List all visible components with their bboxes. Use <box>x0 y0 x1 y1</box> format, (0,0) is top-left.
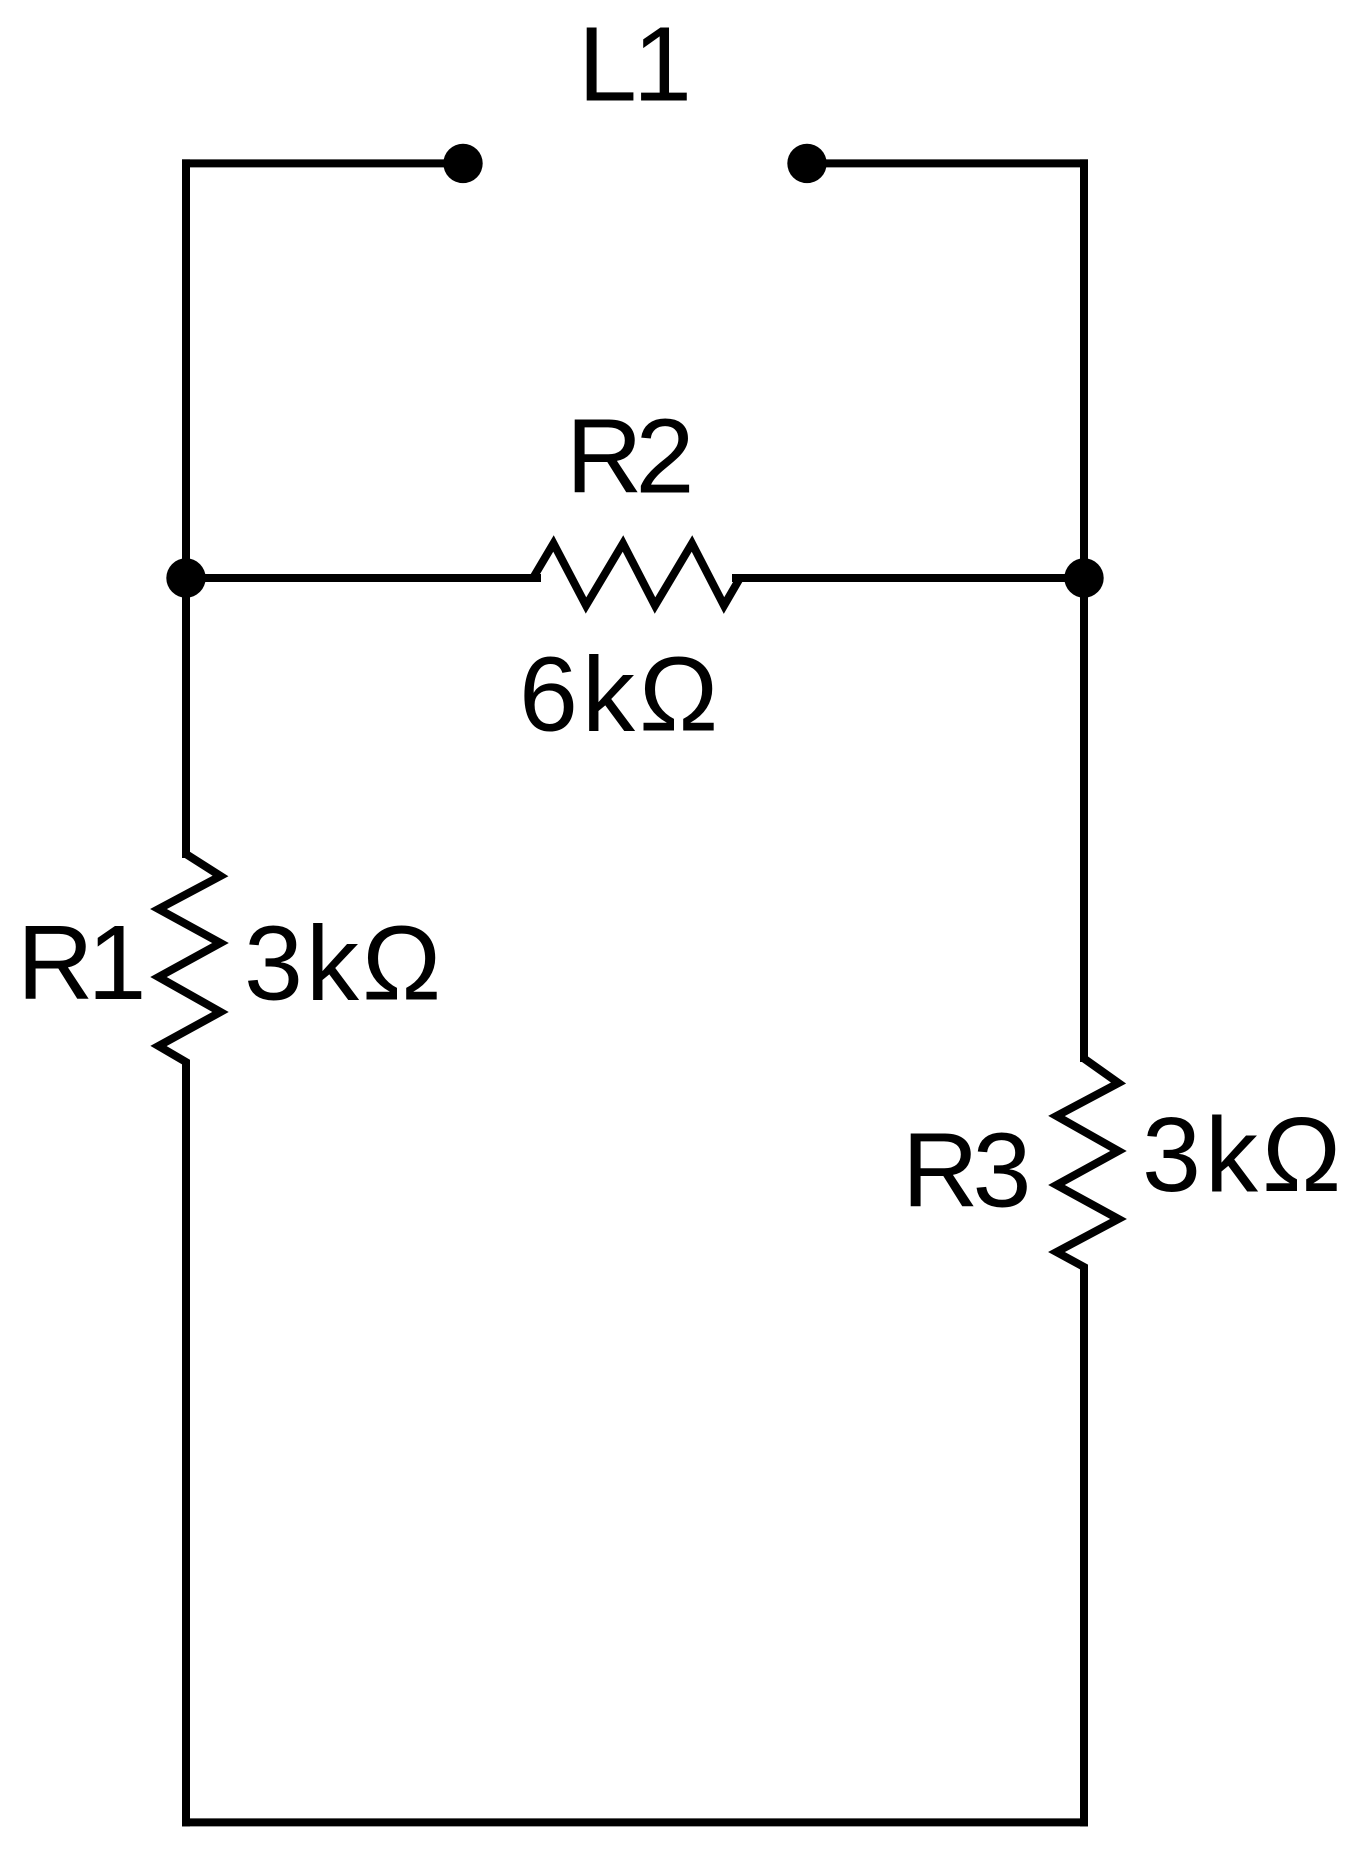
wire middle horizontal left segment (node A to R2) <box>186 574 541 582</box>
resistor R1 zigzag <box>159 846 221 1070</box>
svg-text:6kΩ: 6kΩ <box>519 636 722 754</box>
wire left vertical lower (R1 to bottom corner) <box>182 1062 190 1826</box>
svg-text:L1: L1 <box>578 6 688 124</box>
svg-text:3kΩ: 3kΩ <box>1142 1096 1345 1214</box>
wire left vertical upper (top corner to R1) <box>182 159 190 858</box>
wire right vertical upper (top corner to R3) <box>1080 159 1088 1062</box>
svg-text:R1: R1 <box>17 904 142 1022</box>
wire bottom horizontal <box>182 1818 1088 1826</box>
junction node right (middle wire / right wire) <box>1064 558 1103 597</box>
terminal dot L1 right <box>787 144 826 183</box>
svg-text:R2: R2 <box>566 398 690 516</box>
svg-text:3kΩ: 3kΩ <box>244 905 444 1023</box>
wire right vertical lower (R3 to bottom corner) <box>1080 1267 1088 1826</box>
wire middle horizontal right segment (R2 to node B) <box>732 574 1084 582</box>
resistor R3 zigzag <box>1057 1050 1119 1275</box>
wire top-right horizontal (right L1 terminal lead) <box>807 159 1088 167</box>
wire top-left horizontal (left L1 terminal lead) <box>182 159 463 167</box>
terminal dot L1 left <box>443 144 482 183</box>
junction node left (middle wire / left wire) <box>166 558 205 597</box>
svg-text:R3: R3 <box>902 1112 1028 1230</box>
resistor R2 zigzag <box>525 544 748 606</box>
